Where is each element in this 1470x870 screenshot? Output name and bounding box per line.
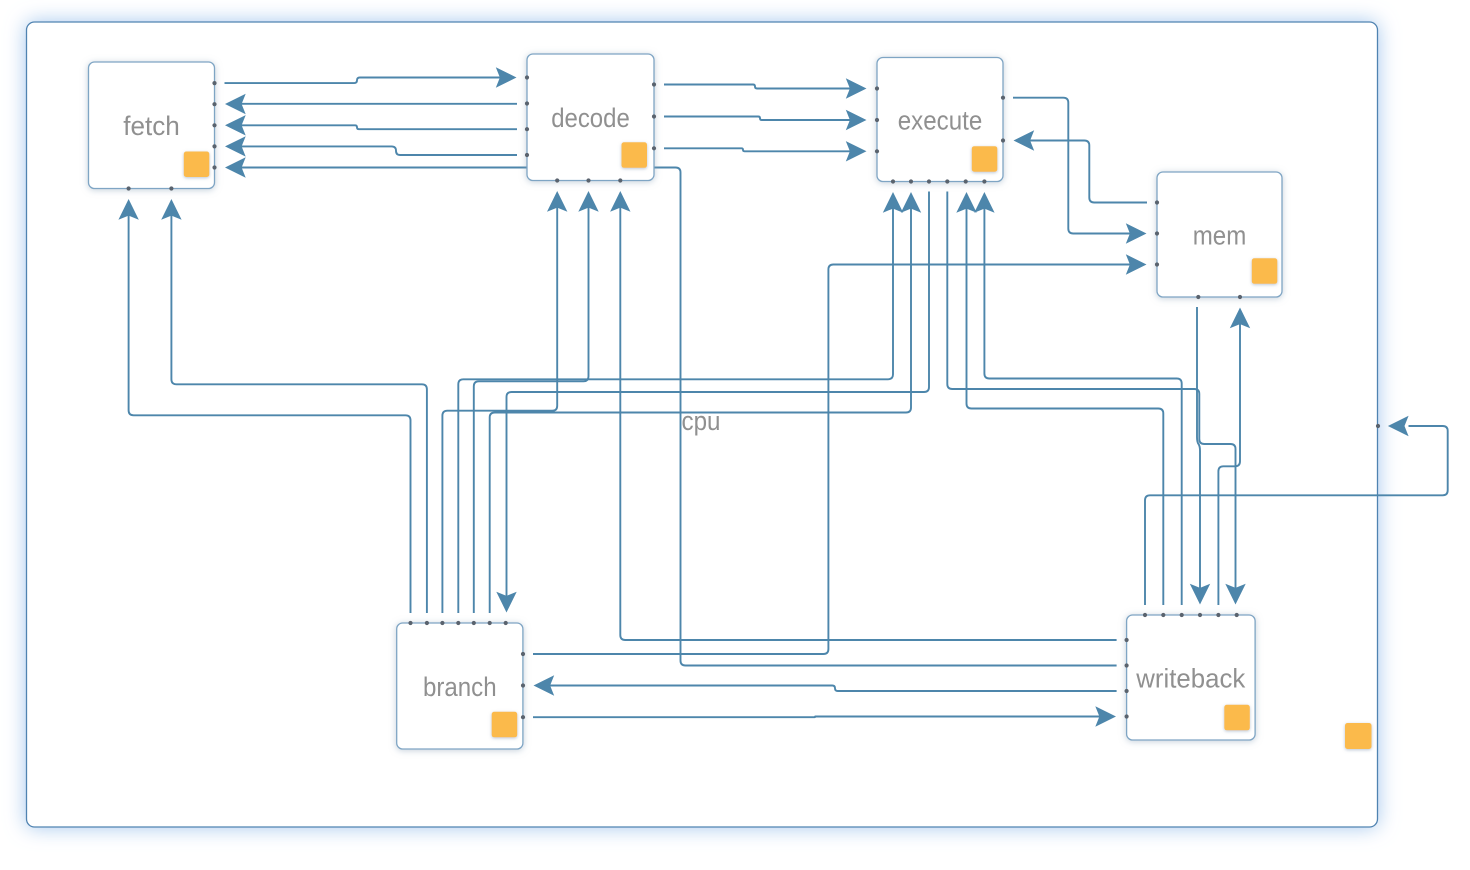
module branch [397, 623, 523, 749]
wire mem->execute [1014, 130, 1148, 202]
wire writeback->decode [610, 191, 1117, 640]
type marker writeback [1224, 705, 1250, 731]
type marker branch [492, 712, 518, 738]
svg-text:decode: decode [551, 103, 630, 133]
module mem [1157, 172, 1282, 297]
wire branch->decode 1 [442, 191, 567, 613]
wire decode->execute 1 [664, 78, 867, 98]
wire branch->execute 2 [490, 192, 922, 613]
svg-text:execute: execute [898, 106, 983, 136]
wire execute->writeback [947, 192, 1245, 605]
ports fetch.b [127, 186, 174, 190]
ports cpu.r [1376, 424, 1380, 428]
module decode [527, 54, 654, 181]
svg-text:fetch: fetch [123, 111, 180, 141]
wire writeback->fetch [225, 157, 1117, 665]
wire branch->writeback [533, 706, 1116, 726]
wire writeback->execute 2 [974, 192, 1181, 605]
wire branch->fetch 1 [118, 199, 410, 613]
ports decode.r [652, 82, 656, 150]
svg-text:branch: branch [423, 672, 497, 702]
wire decode->execute 3 [664, 141, 867, 161]
wire fetch.out->decode [225, 67, 517, 87]
ports execute.b [891, 179, 987, 183]
type marker mem [1252, 258, 1278, 284]
ports branch.r [521, 652, 525, 719]
wire decode->fetch 3 [225, 136, 517, 156]
ports decode.l [525, 75, 529, 157]
ports writeback.l [1125, 638, 1129, 719]
ports execute.r [1001, 96, 1005, 143]
wire mem->writeback [1190, 307, 1210, 605]
svg-text:writeback: writeback [1135, 664, 1245, 694]
type marker execute [972, 146, 998, 172]
wire branch->fetch 2 [161, 199, 427, 613]
ports mem.l [1155, 200, 1159, 266]
wire writeback->cpu port [1145, 416, 1448, 605]
wire writeback->mem [1218, 308, 1250, 606]
module execute [877, 58, 1003, 182]
module fetch [89, 62, 215, 189]
ports fetch.r [212, 81, 216, 170]
svg-text:cpu: cpu [682, 406, 721, 436]
wire decode->fetch 1 [225, 94, 517, 114]
ports mem.b [1196, 295, 1242, 299]
wire branch->decode 2 [474, 191, 599, 613]
wire branch->execute 1 [458, 192, 903, 613]
ports branch.t [408, 621, 507, 625]
wire execute->branch [496, 192, 929, 613]
type marker cpu [1345, 723, 1372, 749]
wire execute->mem [1013, 98, 1147, 244]
wire branch->mem [533, 254, 1147, 654]
wire writeback->branch [534, 675, 1117, 695]
wire writeback->execute 1 [956, 192, 1163, 605]
ports execute.l [875, 86, 879, 153]
svg-text:mem: mem [1193, 221, 1247, 251]
type marker fetch [184, 152, 210, 178]
ports writeback.t [1143, 613, 1239, 617]
module writeback [1127, 615, 1256, 740]
ports decode.b [555, 178, 622, 182]
type marker decode [622, 142, 648, 168]
wire decode->fetch 2 [225, 115, 517, 135]
wire decode->execute 2 [664, 110, 867, 130]
